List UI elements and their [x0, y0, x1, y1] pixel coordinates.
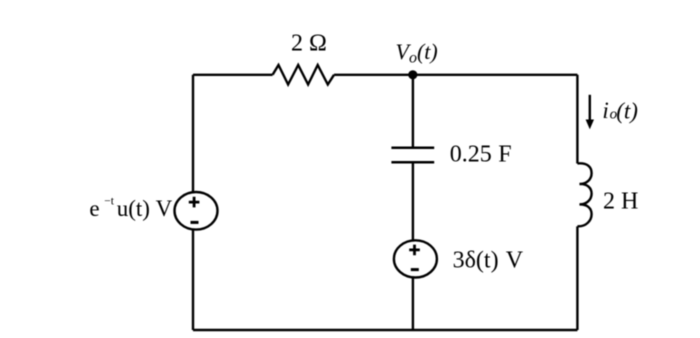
wire: right rail upper	[576, 75, 578, 164]
wire: middle branch lower (source to bottom rail)	[412, 276, 414, 330]
wire: left rail upper	[192, 75, 194, 192]
svg-text:Vo(t): Vo(t)	[396, 39, 438, 67]
wire: top rail left segment	[193, 74, 273, 76]
svg-text:3δ(t): 3δ(t)	[453, 247, 499, 273]
wire: bottom rail	[193, 329, 577, 331]
svg-text:0.25: 0.25	[450, 142, 492, 168]
svg-text:−t: −t	[104, 195, 114, 207]
svg-text:e: e	[89, 196, 99, 221]
resistor R 2 ohm zigzag	[273, 65, 334, 85]
source V2 plus sign	[409, 245, 420, 256]
svg-text:V: V	[156, 196, 173, 221]
source V2 3delta(t) circle	[394, 240, 437, 277]
source V1 minus sign	[191, 221, 199, 224]
svg-text:2 H: 2 H	[603, 188, 638, 214]
svg-text:i: i	[602, 98, 608, 123]
svg-text:V: V	[506, 247, 524, 273]
source V2 minus sign	[411, 268, 419, 271]
svg-text:F: F	[498, 142, 511, 168]
svg-text:2 Ω: 2 Ω	[291, 30, 327, 56]
current arrow io(t) head	[586, 120, 594, 130]
wire: middle branch between capacitor and source	[412, 162, 414, 241]
wire: top rail right segment	[334, 74, 577, 76]
capacitor C 0.25 F bottom plate	[391, 161, 434, 164]
svg-text:u(t): u(t)	[117, 196, 150, 221]
inductor L 2 H coil	[577, 163, 591, 226]
wire: right rail lower	[576, 226, 578, 330]
svg-text:(t): (t)	[616, 99, 638, 124]
source V1 e^-t u(t) circle	[175, 192, 218, 230]
capacitor C 0.25 F top plate	[391, 147, 434, 150]
wire: left rail lower	[192, 230, 194, 330]
node Vo(t) junction dot	[408, 70, 417, 79]
current arrow io(t) shaft	[589, 95, 591, 121]
wire: middle branch upper (node to capacitor)	[412, 75, 414, 148]
source V1 plus sign	[189, 197, 200, 208]
